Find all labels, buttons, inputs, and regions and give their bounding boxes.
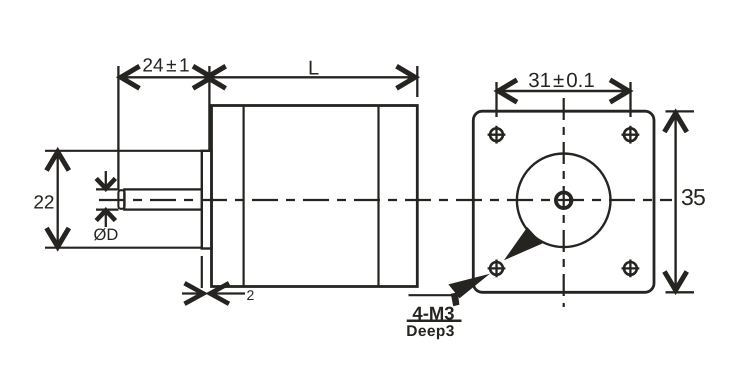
- shaft flat mark: [569, 195, 572, 206]
- leader arrowhead upper (points at hole from circle): [504, 227, 543, 260]
- hole bottom-right: [622, 260, 640, 278]
- hole top-left: [488, 126, 506, 144]
- arrow 31 left: [498, 80, 517, 102]
- svg-text:2: 2: [247, 287, 255, 303]
- motor front endcap line: [243, 106, 245, 287]
- arrow 35 bottom: [664, 272, 686, 291]
- dim line 35: [674, 112, 676, 292]
- dim line 24: [118, 76, 209, 78]
- svg-text:4-M3: 4-M3: [412, 303, 454, 324]
- shaft dia ext stub top: [96, 188, 119, 190]
- svg-text:22: 22: [33, 192, 54, 213]
- boss extension line top (22 dim): [45, 150, 202, 152]
- svg-text:ØD: ØD: [94, 226, 119, 244]
- svg-text:Deep3: Deep3: [406, 323, 455, 340]
- arrow 24 right: [193, 66, 212, 88]
- centerline horizontal: [99, 199, 672, 201]
- dim 24 ext line left / shaft end: [117, 66, 119, 190]
- shaft end cap: [118, 190, 124, 209]
- dim 2 tail left: [182, 292, 202, 294]
- faceplate: [473, 111, 654, 292]
- dim line L: [209, 76, 417, 78]
- centerline vertical (face view): [563, 98, 565, 307]
- svg-text:31±0.1: 31±0.1: [528, 69, 595, 92]
- arrow OD bottom (up): [96, 210, 115, 227]
- svg-text:L: L: [308, 58, 319, 80]
- shaft circle (face view): [556, 193, 572, 209]
- pilot boss side: [202, 151, 212, 249]
- hole bottom-left: [488, 260, 506, 278]
- arrow 22 top: [47, 152, 69, 171]
- arrow L right: [397, 66, 416, 88]
- motor rear endcap line: [377, 106, 379, 287]
- leader arrowhead lower (points at hole from label): [448, 274, 490, 299]
- arrow 2 left (points right): [185, 283, 204, 304]
- svg-text:24±1: 24±1: [142, 56, 189, 77]
- arrow 35 top: [664, 113, 686, 132]
- dim 2 tail right: [212, 292, 246, 294]
- arrow 24 left: [121, 66, 140, 88]
- dim 35 ext line bottom: [666, 291, 695, 293]
- arrow 22 bottom: [47, 228, 69, 247]
- dim L ext line right: [416, 66, 418, 97]
- arrow OD top (down): [96, 171, 115, 189]
- arrow 31 right: [610, 80, 629, 102]
- shaft dia ext stub bottom: [96, 209, 119, 211]
- arrow L left: [207, 66, 226, 88]
- pilot boss circle: [517, 154, 611, 248]
- svg-text:35: 35: [681, 184, 705, 210]
- dim 24 ext line right: [208, 66, 210, 151]
- dim 31 ext line right: [629, 82, 631, 117]
- leader shelf line: [409, 294, 455, 296]
- boss extension line bottom (22 dim): [45, 247, 202, 249]
- shaft body: [124, 189, 202, 209]
- 4-M3 fraction bar: [407, 319, 462, 322]
- dim 31 ext line left: [495, 82, 497, 117]
- dim 35 ext line top: [666, 110, 695, 112]
- motor body: [212, 106, 418, 287]
- dim line 31: [497, 90, 631, 92]
- hole top-right: [622, 126, 640, 144]
- dim 22 line: [57, 151, 59, 248]
- dim 2 ext line: [201, 256, 203, 288]
- arrow 2 right (points left): [210, 283, 229, 304]
- leader tail spike: [451, 292, 460, 306]
